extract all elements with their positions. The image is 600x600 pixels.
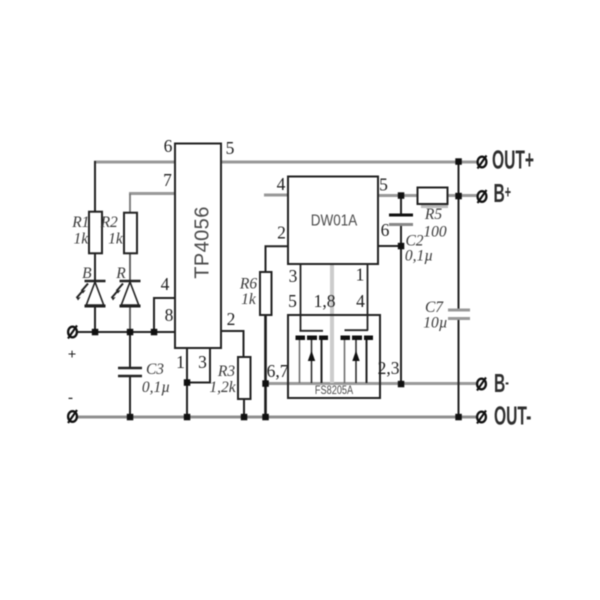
wire DW01A pin3 to FET1 gate	[300, 264, 302, 331]
terminal OUT-	[477, 411, 486, 424]
svg-text:TP4056: TP4056	[192, 206, 214, 278]
svg-text:1: 1	[356, 265, 365, 285]
IC U2 DW01A box	[288, 177, 378, 265]
capacitor C2	[389, 214, 413, 217]
wire C3 to ground	[129, 376, 131, 417]
svg-text:10µ: 10µ	[423, 315, 447, 332]
svg-text:1k: 1k	[241, 291, 257, 308]
wire R6 to ground	[264, 315, 267, 417]
svg-text:2,3: 2,3	[378, 358, 400, 378]
svg-text:0,1µ: 0,1µ	[405, 248, 433, 265]
wire C7 to ground	[458, 319, 460, 418]
wire LED R to +rail	[129, 306, 131, 333]
wire B- net	[266, 382, 477, 385]
resistor R5	[421, 204, 448, 208]
svg-text:5: 5	[226, 138, 235, 158]
svg-text:R: R	[115, 265, 126, 282]
capacitor C7	[448, 309, 470, 312]
transistor Q2 FET right of FS8205A	[341, 330, 374, 383]
svg-text:5: 5	[288, 291, 297, 311]
svg-text:R5: R5	[424, 206, 442, 223]
svg-text:8: 8	[165, 305, 174, 325]
wire TP4056 pin3	[187, 348, 210, 383]
wire + input rail	[77, 331, 176, 333]
wire C2 top lead	[400, 195, 402, 215]
terminal IN-	[68, 410, 77, 423]
svg-text:OUT+: OUT+	[492, 145, 534, 174]
wire +rail to C3	[129, 332, 131, 368]
svg-text:3: 3	[289, 266, 298, 286]
resistor R3	[238, 357, 251, 399]
svg-text:C3: C3	[146, 361, 164, 378]
wire LED B to +rail	[94, 306, 96, 333]
terminal OUT+	[478, 156, 487, 169]
svg-text:1,2k: 1,2k	[209, 379, 236, 396]
wire pin6 TP4056 top left	[94, 161, 176, 164]
svg-text:B: B	[82, 265, 92, 282]
wire DW01A pin4 stub	[264, 194, 289, 197]
svg-text:1: 1	[176, 352, 185, 372]
svg-text:1,8: 1,8	[314, 291, 336, 311]
svg-text:R3: R3	[217, 363, 235, 380]
svg-text:R1: R1	[71, 214, 89, 231]
wire OUT+ to B+ vertical	[458, 161, 460, 310]
wire R2 top lead	[129, 194, 131, 214]
svg-text:R2: R2	[100, 214, 118, 231]
svg-text:3: 3	[198, 352, 207, 372]
svg-text:4: 4	[356, 291, 365, 311]
resistor R6	[260, 272, 272, 315]
wire R1 to LED B	[94, 253, 96, 282]
svg-text:2: 2	[227, 309, 236, 329]
wire R1 top lead	[94, 161, 96, 212]
svg-text:1k: 1k	[108, 231, 124, 248]
svg-text:OUT-: OUT-	[494, 401, 531, 430]
svg-text:0,1µ: 0,1µ	[142, 379, 170, 396]
svg-text:7: 7	[163, 170, 172, 190]
wire ground OUT- rail	[77, 416, 477, 419]
svg-text:5: 5	[379, 175, 388, 195]
svg-text:+: +	[68, 347, 77, 363]
svg-text:4: 4	[277, 174, 286, 194]
wire TP4056 pin2 to R3	[220, 331, 244, 357]
svg-text:6: 6	[164, 136, 173, 156]
wire DW01A pin1 to FET2 gate	[367, 264, 369, 331]
svg-text:6: 6	[381, 220, 390, 240]
transistor Q1 FET left of FS8205A	[296, 331, 329, 383]
LED R	[112, 281, 141, 306]
terminal B+	[478, 190, 487, 203]
wire pin5 TP4056 to OUT+	[220, 161, 477, 164]
svg-text:4: 4	[161, 274, 170, 294]
wire TP4056 pin1 to ground	[186, 348, 188, 417]
resistor R1	[89, 212, 102, 254]
wire DW01A pin5 to B+	[377, 194, 477, 197]
IC U1 TP4056 box	[175, 144, 221, 349]
wire DW01A pin2 to R6	[266, 246, 290, 272]
LED B	[77, 281, 106, 306]
svg-text:1k: 1k	[73, 231, 89, 248]
terminal B-	[477, 378, 486, 391]
wire R2 to LED R	[129, 253, 131, 282]
wire C2 to B-	[400, 225, 402, 385]
IC U3 FS8205A box	[288, 315, 380, 398]
capacitor C3	[118, 368, 142, 376]
svg-text:R6: R6	[239, 276, 257, 293]
wire pin7 TP4056	[129, 192, 176, 195]
svg-text:6,7: 6,7	[267, 361, 289, 381]
resistor R2	[124, 213, 137, 254]
wire FS8205A pins 1,8 band	[330, 264, 334, 383]
wire R3 to ground	[243, 399, 245, 417]
terminal IN+	[68, 326, 77, 339]
svg-text:FS8205A: FS8205A	[315, 385, 353, 397]
svg-text:C7: C7	[425, 299, 444, 316]
svg-text:DW01A: DW01A	[311, 213, 358, 230]
svg-text:2: 2	[277, 223, 286, 243]
svg-text:100: 100	[423, 224, 447, 241]
svg-text:-: -	[68, 390, 73, 406]
wire DW01A pin6	[377, 245, 401, 247]
wire TP4056 pin4	[154, 298, 176, 332]
